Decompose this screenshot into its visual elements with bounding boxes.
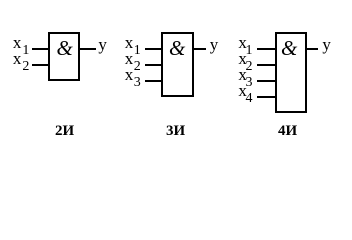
input label x2 (U1) xyxy=(13,50,22,67)
wire: input x2 of U2 xyxy=(145,64,164,66)
wire: input x2 of U1 xyxy=(32,64,50,66)
input label x4 (U3) xyxy=(238,82,247,99)
caption 3И xyxy=(166,124,185,139)
AND gate U1 body (2И) xyxy=(48,32,80,81)
input label x1 (U1) xyxy=(13,34,22,51)
wire: input x1 of U2 xyxy=(145,48,164,50)
wire: input x3 of U3 xyxy=(257,80,277,82)
U1 function label & xyxy=(57,38,73,59)
wire: input x2 of U3 xyxy=(257,64,277,66)
input label x3 (U2) xyxy=(125,66,134,83)
AND gate U2 body (3И) xyxy=(161,32,194,97)
output label y (U3) xyxy=(322,36,331,53)
input label x2 (U2) xyxy=(125,50,134,67)
caption 2И xyxy=(55,124,74,139)
wire: input x1 of U3 xyxy=(257,48,277,50)
input label x1 (U3) xyxy=(238,34,247,51)
wire: input x4 of U3 xyxy=(257,96,277,98)
U3 function label & xyxy=(281,38,297,59)
AND gate U3 body (4И) xyxy=(275,32,307,113)
output label y (U1) xyxy=(98,36,107,53)
input label x1 (U2) xyxy=(125,34,134,51)
caption 4И xyxy=(278,124,297,139)
wire: output y of U2 xyxy=(194,48,206,50)
input label x3 (U3) xyxy=(238,66,247,83)
U2 function label & xyxy=(169,38,185,59)
wire: input x1 of U1 xyxy=(32,48,50,50)
wire: input x3 of U2 xyxy=(145,80,164,82)
wire: output y of U3 xyxy=(307,48,319,50)
input label x2 (U3) xyxy=(238,50,247,67)
output label y (U2) xyxy=(210,36,219,53)
wire: output y of U1 xyxy=(80,48,96,50)
